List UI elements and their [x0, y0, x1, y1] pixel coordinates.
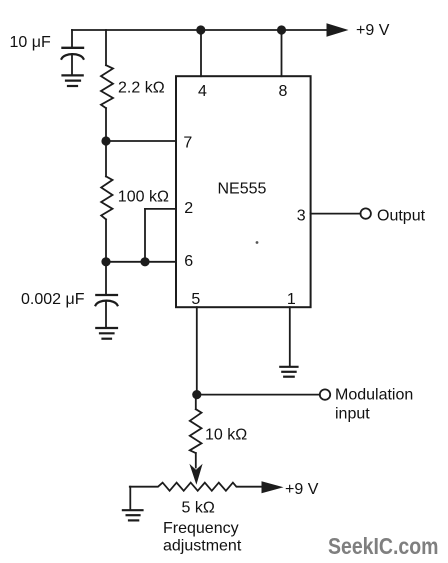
svg-text:input: input — [335, 406, 370, 423]
svg-text:100 kΩ: 100 kΩ — [118, 188, 169, 205]
svg-text:adjustment: adjustment — [163, 538, 242, 555]
svg-text:+9 V: +9 V — [285, 481, 319, 498]
svg-text:Frequency: Frequency — [163, 520, 239, 537]
svg-text:8: 8 — [279, 83, 288, 100]
svg-text:4: 4 — [198, 83, 207, 100]
svg-text:5: 5 — [191, 291, 200, 308]
svg-text:3: 3 — [297, 208, 306, 225]
svg-text:10 kΩ: 10 kΩ — [205, 427, 247, 444]
svg-text:2: 2 — [184, 200, 193, 217]
svg-text:Modulation: Modulation — [335, 387, 413, 404]
svg-text:Output: Output — [377, 207, 426, 224]
svg-text:+9 V: +9 V — [356, 22, 390, 39]
svg-text:10 μF: 10 μF — [10, 34, 51, 51]
svg-text:NE555: NE555 — [218, 181, 267, 198]
svg-text:6: 6 — [184, 253, 193, 270]
svg-text:0.002 μF: 0.002 μF — [21, 291, 85, 308]
svg-text:7: 7 — [183, 134, 192, 151]
svg-text:1: 1 — [287, 291, 296, 308]
svg-text:2.2 kΩ: 2.2 kΩ — [118, 80, 165, 97]
svg-text:SeekIC.com: SeekIC.com — [328, 533, 439, 559]
svg-text:5 kΩ: 5 kΩ — [182, 499, 215, 516]
